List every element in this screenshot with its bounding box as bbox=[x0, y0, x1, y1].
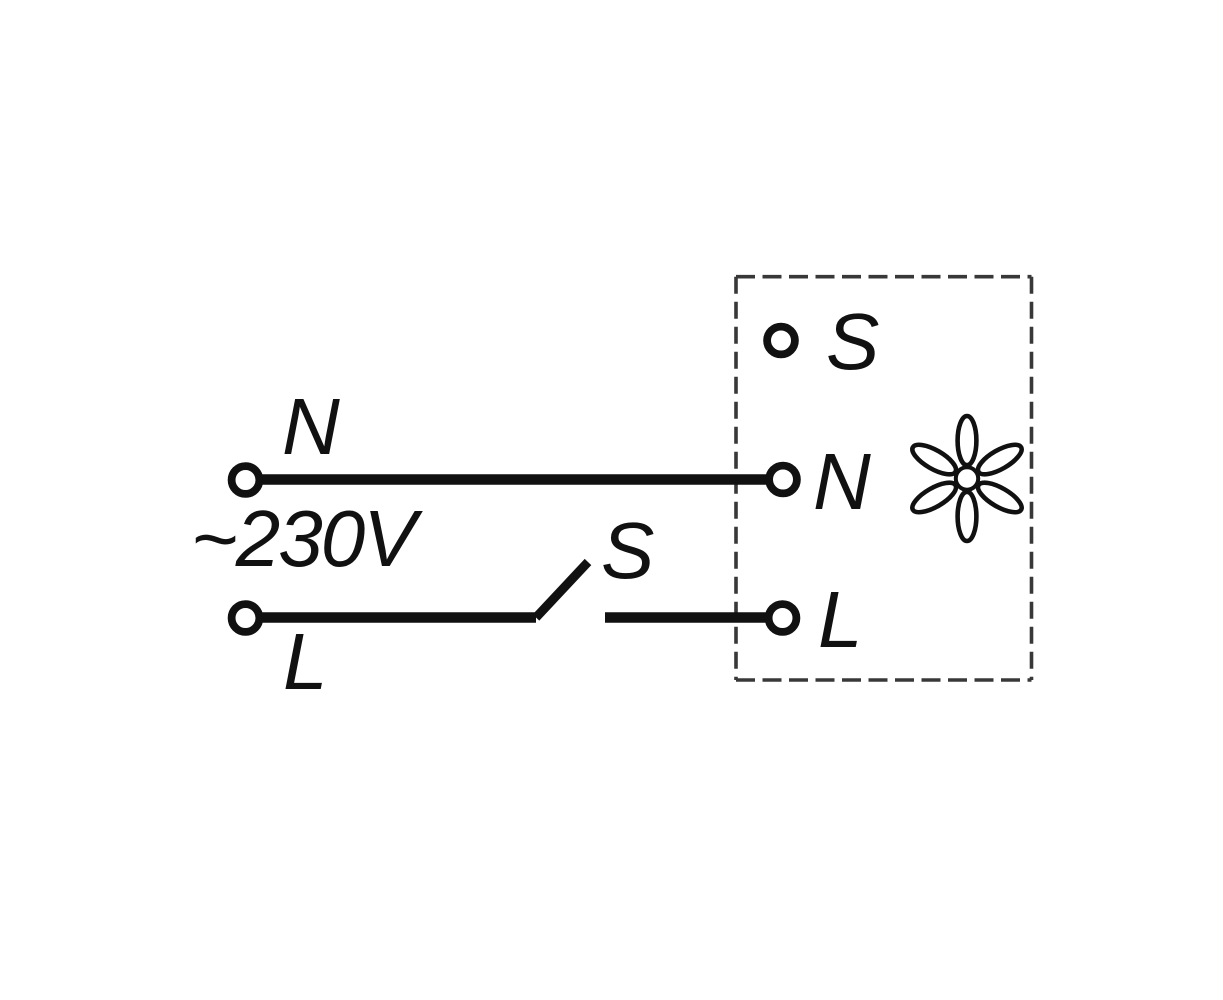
svg-text:S: S bbox=[601, 506, 654, 595]
terminal: fan L bbox=[769, 604, 797, 632]
fan hub bbox=[956, 467, 978, 489]
svg-text:L: L bbox=[818, 575, 863, 664]
svg-text:L: L bbox=[283, 617, 328, 706]
switch S lever (open switch) bbox=[536, 562, 588, 618]
wire L (bottom left, supply live to switch) bbox=[246, 612, 537, 623]
wire N (top, supply neutral to fan N terminal) bbox=[246, 474, 784, 485]
wire (switch to fan L terminal) bbox=[605, 612, 783, 623]
svg-text:~230V: ~230V bbox=[191, 494, 423, 583]
terminal: supply N (left top) bbox=[232, 466, 260, 494]
fan unit enclosure (dashed box) bbox=[736, 277, 1032, 680]
svg-text:N: N bbox=[282, 382, 340, 471]
terminal: fan S bbox=[767, 327, 795, 355]
svg-text:N: N bbox=[813, 437, 871, 526]
fan motor symbol (6-petal impeller) bbox=[908, 416, 1026, 541]
svg-text:S: S bbox=[826, 297, 879, 386]
terminal: fan N bbox=[769, 466, 797, 494]
terminal: supply L (left bottom) bbox=[232, 604, 260, 632]
